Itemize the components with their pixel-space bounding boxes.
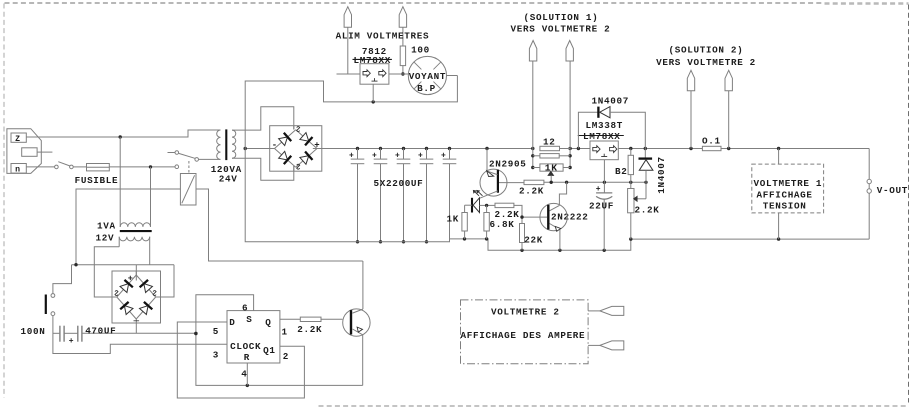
svg-text:+: +	[441, 151, 446, 160]
svg-text:Z: Z	[15, 135, 21, 144]
svg-text:+: +	[128, 273, 134, 283]
svg-text:+: +	[69, 337, 74, 346]
svg-text:470UF: 470UF	[85, 326, 116, 337]
svg-text:VERS VOLTMETRE 2: VERS VOLTMETRE 2	[656, 57, 756, 68]
svg-text:6: 6	[242, 302, 248, 313]
svg-text:ALIM VOLTMETRES: ALIM VOLTMETRES	[336, 30, 430, 41]
svg-text:12V: 12V	[96, 233, 115, 244]
svg-text:B2: B2	[615, 166, 627, 177]
svg-text:VOYANT: VOYANT	[409, 71, 446, 82]
svg-text:2.2K: 2.2K	[495, 209, 520, 220]
svg-text:100N: 100N	[21, 326, 46, 337]
svg-text:1: 1	[282, 327, 288, 338]
svg-text:22K: 22K	[524, 235, 543, 246]
svg-text:AFFICHAGE DES AMPERE: AFFICHAGE DES AMPERE	[461, 330, 586, 341]
svg-text:22UF: 22UF	[589, 201, 614, 212]
svg-text:+: +	[596, 185, 601, 194]
svg-text:+: +	[349, 151, 354, 160]
svg-text:V-OUT: V-OUT	[877, 185, 908, 196]
svg-text:S: S	[246, 314, 252, 325]
svg-text:1N4007: 1N4007	[656, 156, 667, 193]
svg-text:-: -	[272, 141, 278, 151]
svg-text:FUSIBLE: FUSIBLE	[75, 175, 119, 186]
svg-text:B.P: B.P	[417, 83, 436, 94]
svg-text:AFFICHAGE: AFFICHAGE	[757, 190, 813, 201]
svg-text:+: +	[418, 151, 423, 160]
svg-text:LM338T: LM338T	[586, 120, 623, 131]
svg-text:CLOCK: CLOCK	[230, 341, 261, 352]
svg-text:4: 4	[241, 368, 247, 379]
svg-text:1N4007: 1N4007	[592, 96, 629, 107]
svg-text:LM78XX: LM78XX	[583, 131, 620, 142]
svg-text:Q1: Q1	[263, 345, 275, 356]
svg-text:2: 2	[283, 351, 289, 362]
svg-text:24V: 24V	[219, 174, 238, 185]
svg-text:(SOLUTION 2): (SOLUTION 2)	[669, 45, 744, 56]
svg-text:100: 100	[411, 44, 430, 55]
svg-text:+: +	[395, 151, 400, 160]
svg-text:VERS VOLTMETRE 2: VERS VOLTMETRE 2	[511, 24, 611, 35]
svg-text:D: D	[229, 317, 235, 328]
svg-text:(SOLUTION 1): (SOLUTION 1)	[524, 12, 599, 23]
svg-text:2N2905: 2N2905	[489, 159, 526, 170]
svg-text:2.2K: 2.2K	[297, 324, 322, 335]
svg-text:n: n	[15, 165, 21, 174]
svg-text:VOLTMETRE 1: VOLTMETRE 1	[754, 178, 823, 189]
svg-text:5X2200UF: 5X2200UF	[374, 178, 424, 189]
svg-text:3: 3	[213, 350, 219, 361]
svg-text:2N2222: 2N2222	[551, 212, 588, 223]
svg-text:2.2K: 2.2K	[635, 205, 660, 216]
svg-text:R: R	[244, 352, 250, 363]
svg-text:1K: 1K	[447, 214, 459, 225]
svg-text:O.1: O.1	[702, 136, 721, 147]
svg-text:Q: Q	[265, 317, 271, 328]
svg-text:TENSION: TENSION	[763, 201, 807, 212]
svg-text:+: +	[314, 141, 320, 151]
svg-text:+: +	[372, 151, 377, 160]
svg-text:VOLTMETRE 2: VOLTMETRE 2	[491, 307, 560, 318]
svg-text:5: 5	[213, 326, 219, 337]
svg-text:2.2K: 2.2K	[519, 186, 544, 197]
svg-text:1VA: 1VA	[97, 221, 116, 232]
svg-text:6.8K: 6.8K	[490, 219, 515, 230]
